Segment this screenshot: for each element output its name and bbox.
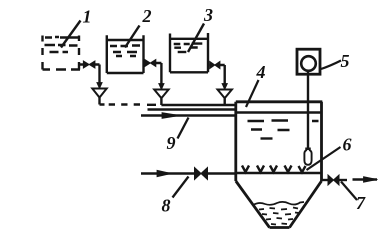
valve on pipe 8	[195, 168, 208, 180]
liquid surface in vessel	[237, 113, 322, 139]
dosing line (dashed from funnel 1 to funnel 2, solid to vessel)	[100, 103, 237, 106]
electrode bulb 6	[304, 148, 311, 165]
label 4 leader	[246, 80, 259, 107]
label 7 leader	[341, 182, 357, 201]
tank 1 (dashed reagent tank)	[43, 36, 81, 70]
sediment in cone	[253, 202, 304, 225]
sparger plate in vessel with nozzles	[236, 166, 322, 174]
label 8 leader	[173, 177, 189, 198]
valve B (between tank 2 and funnel 2)	[144, 60, 162, 67]
pipe 9 (water feed, double line)	[141, 110, 237, 119]
tank 3	[170, 33, 208, 72]
label 1 leader	[61, 21, 81, 48]
vessel 4 (reactor tank walls)	[236, 102, 322, 228]
label 9 leader	[178, 118, 189, 139]
valve C (between tank 3 and funnel 3)	[209, 62, 224, 69]
svg-text:2: 2	[142, 6, 152, 26]
tank 2	[107, 35, 144, 73]
valve A (between tank 1 and funnel 1)	[79, 61, 100, 68]
label 6 leader	[307, 147, 341, 170]
stirrer shaft	[307, 71, 309, 151]
svg-text:7: 7	[356, 193, 366, 213]
svg-text:4: 4	[256, 62, 266, 82]
funnel 2 with down pipe	[154, 63, 168, 105]
label 3 leader	[188, 24, 204, 53]
funnel 3 with down pipe	[218, 65, 232, 105]
svg-text:1: 1	[83, 7, 92, 27]
pipe 8 with arrow (bottom feed)	[141, 170, 236, 176]
svg-text:5: 5	[341, 51, 350, 71]
label 2 leader	[125, 26, 140, 48]
svg-text:6: 6	[343, 135, 352, 155]
svg-text:3: 3	[203, 5, 213, 25]
svg-text:8: 8	[162, 196, 171, 216]
outlet pipe 7 with valve and arrow	[321, 175, 378, 185]
svg-text:9: 9	[167, 133, 176, 153]
motor M5 (square with circle)	[297, 49, 320, 74]
funnel 1 with down pipe	[92, 65, 106, 105]
label 5 leader	[321, 61, 341, 70]
